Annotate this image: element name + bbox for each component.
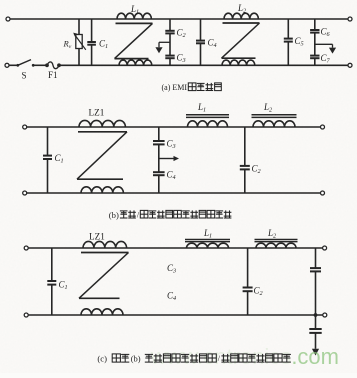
capacitor C4 xyxy=(196,19,205,65)
label L2 (c) xyxy=(267,228,276,240)
capacitor C2 xyxy=(165,19,174,33)
label C4 (b) xyxy=(167,170,176,182)
label C6 (a) xyxy=(321,27,331,39)
label C4 (a) xyxy=(208,38,217,50)
svg-text:www.cntronics.com: www.cntronics.com xyxy=(150,344,339,369)
wire: (b) bottom rail xyxy=(27,192,320,194)
watermark www.cntronics.com xyxy=(150,344,339,369)
label C3 (b) xyxy=(167,139,176,151)
label C7 (a) xyxy=(321,53,331,65)
wire: (c) bottom rail xyxy=(28,314,322,316)
svg-text:LZ1: LZ1 xyxy=(89,231,105,241)
circuit (a) output terminal bottom xyxy=(348,63,352,67)
capacitor right upper (c) xyxy=(310,248,321,315)
inductor L2 (b) xyxy=(252,115,297,127)
label C2 (c) xyxy=(254,286,263,298)
svg-text:(a) EMI: (a) EMI xyxy=(162,83,188,92)
label LZ1 (c) xyxy=(89,231,105,241)
svg-text:(b): (b) xyxy=(131,354,141,364)
capacitor right lower (c) xyxy=(309,315,321,349)
capacitor C5 xyxy=(284,19,293,65)
wire: (b) top rail xyxy=(27,126,320,128)
capacitor C3 xyxy=(165,56,174,66)
capacitor C4 (b) xyxy=(153,172,165,193)
label L2 (a) xyxy=(237,3,246,15)
circuit (a) input terminal top xyxy=(6,17,10,21)
arrow tap of C3/C4 (b) xyxy=(159,156,179,161)
wire: C2-C3 middle xyxy=(169,34,171,55)
svg-text:(c): (c) xyxy=(97,354,107,364)
wire: C3-C4 middle (b) xyxy=(158,145,160,172)
common-mode choke LZ1 (c) xyxy=(79,241,129,315)
capacitor C2 (c) xyxy=(243,248,253,315)
ground tap of C6/C7 xyxy=(315,44,336,53)
circuit (c) output terminal bottom xyxy=(323,313,327,317)
capacitor C1 xyxy=(87,19,96,65)
caption (a) EMI filter circuit xyxy=(162,83,222,92)
fuse F1 xyxy=(45,62,61,69)
label C2 (a) xyxy=(177,28,186,40)
inductor L2 (c) xyxy=(255,240,298,249)
label F1 xyxy=(48,70,58,80)
ground arrow (c) xyxy=(312,349,319,356)
label C3 (c) floating xyxy=(167,263,176,275)
svg-text:F1: F1 xyxy=(48,70,58,80)
circuit (a) output terminal top xyxy=(348,17,352,21)
circuit (b) output terminal bottom xyxy=(321,191,325,195)
wire: switch to fuse xyxy=(33,64,45,66)
label C1 (a) xyxy=(99,39,108,51)
caption (c) modified CM/DM filter circuit xyxy=(97,354,291,364)
label C4 (c) floating xyxy=(167,291,176,303)
label C1 (c) xyxy=(59,280,68,292)
circuit (c) output terminal top xyxy=(323,246,327,250)
wire: (a) bottom rail xyxy=(59,64,348,66)
wire: (a) top rail xyxy=(10,18,348,20)
circuit (c) input terminal top xyxy=(24,246,28,250)
label L1 (c) xyxy=(203,228,212,240)
common-mode choke L2 xyxy=(222,13,260,65)
wire: (a) bottom rail left segment xyxy=(9,64,17,66)
capacitor C2 (b) xyxy=(240,127,250,193)
junction dot (c) bottom right xyxy=(314,313,318,317)
common-mode choke LZ1 (b) xyxy=(77,120,127,193)
label Rv xyxy=(63,39,72,51)
label L2 (b) xyxy=(263,102,272,114)
wire: (c) top rail xyxy=(28,247,322,249)
label C5 (a) xyxy=(295,36,304,48)
wire: C6-C7 middle xyxy=(314,33,316,55)
label LZ1 (b) xyxy=(89,108,105,118)
capacitor C1 (b) xyxy=(43,127,52,193)
label L1 (b) xyxy=(197,102,206,114)
ground tap of C2/C3 xyxy=(155,42,170,53)
inductor L1 (b) xyxy=(186,115,229,127)
circuit (c) input terminal bottom xyxy=(24,313,28,317)
switch S xyxy=(16,60,34,67)
label S xyxy=(22,71,27,81)
label C2 (b) xyxy=(252,164,261,176)
circuit (a) input terminal bottom xyxy=(5,63,9,67)
circuit (b) output terminal top xyxy=(321,125,325,129)
inductor L1 (c) xyxy=(185,240,230,249)
capacitor C3 (b) xyxy=(153,127,165,144)
label C1 (b) xyxy=(55,153,64,165)
svg-text:LZ1: LZ1 xyxy=(89,108,105,118)
svg-text:(b): (b) xyxy=(109,210,119,220)
capacitor C6 xyxy=(310,19,319,33)
caption (b) typical CM/DM filter circuit xyxy=(109,210,232,220)
varistor Rv xyxy=(73,19,86,65)
capacitor C1 (c) xyxy=(47,248,56,315)
common-mode choke L1 xyxy=(115,13,153,65)
circuit (b) input terminal top xyxy=(23,125,27,129)
capacitor C7 xyxy=(310,56,319,66)
label L1 (a) xyxy=(130,4,139,16)
label C3 (a) xyxy=(177,53,186,65)
circuit (b) input terminal bottom xyxy=(23,191,27,195)
svg-text:S: S xyxy=(22,71,27,81)
